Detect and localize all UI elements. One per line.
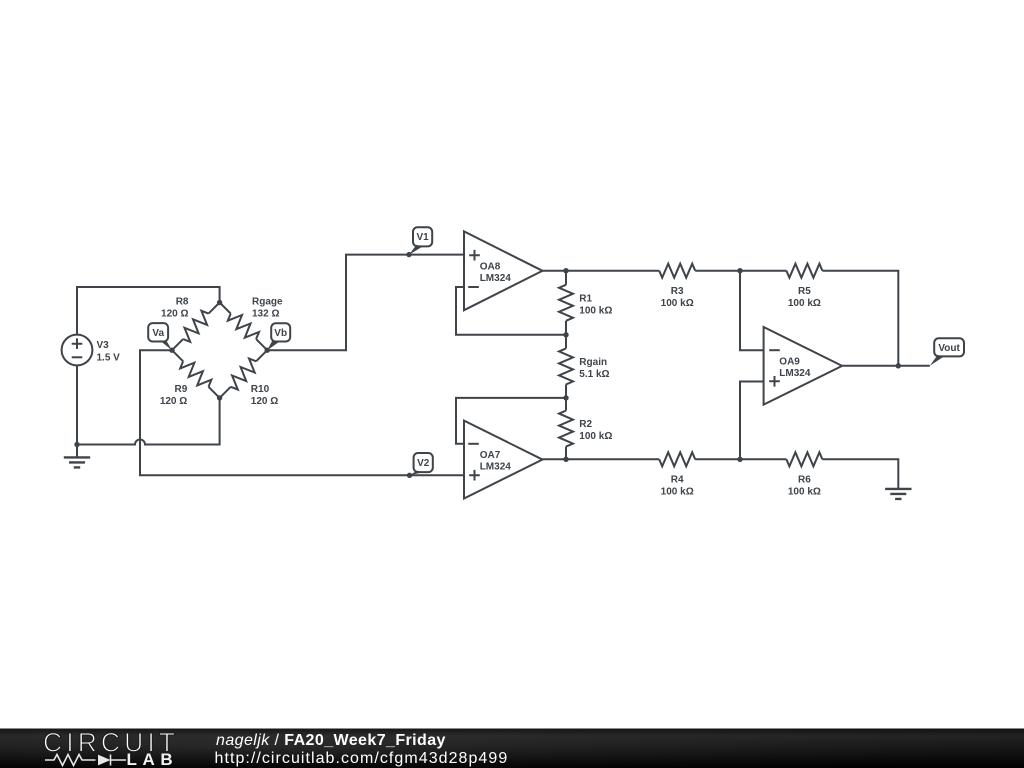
svg-text:Rgage: Rgage bbox=[252, 296, 283, 307]
svg-text:100 kΩ: 100 kΩ bbox=[661, 487, 694, 498]
svg-text:OA9: OA9 bbox=[779, 357, 800, 368]
svg-text:http://circuitlab.com/cfgm43d2: http://circuitlab.com/cfgm43d28p499 bbox=[215, 750, 509, 767]
svg-text:100 kΩ: 100 kΩ bbox=[788, 298, 821, 309]
svg-text:Va: Va bbox=[152, 328, 164, 339]
svg-text:5.1 kΩ: 5.1 kΩ bbox=[579, 369, 609, 380]
svg-text:OA8: OA8 bbox=[480, 262, 501, 273]
svg-text:132 Ω: 132 Ω bbox=[252, 308, 279, 319]
svg-text:V1: V1 bbox=[416, 232, 429, 243]
svg-text:120 Ω: 120 Ω bbox=[251, 396, 278, 407]
svg-text:V3: V3 bbox=[97, 340, 110, 351]
svg-text:120 Ω: 120 Ω bbox=[160, 396, 187, 407]
svg-text:100 kΩ: 100 kΩ bbox=[788, 487, 821, 498]
svg-text:100 kΩ: 100 kΩ bbox=[579, 305, 612, 316]
svg-text:R2: R2 bbox=[579, 419, 592, 430]
svg-text:100 kΩ: 100 kΩ bbox=[661, 298, 694, 309]
svg-text:120 Ω: 120 Ω bbox=[161, 308, 188, 319]
svg-text:R10: R10 bbox=[251, 384, 270, 395]
svg-text:1.5 V: 1.5 V bbox=[97, 352, 121, 363]
svg-text:Vb: Vb bbox=[274, 328, 287, 339]
svg-text:R9: R9 bbox=[175, 384, 188, 395]
svg-text:LM324: LM324 bbox=[480, 273, 512, 284]
svg-text:Rgain: Rgain bbox=[579, 357, 607, 368]
svg-text:LM324: LM324 bbox=[480, 462, 512, 473]
svg-text:V2: V2 bbox=[417, 458, 430, 469]
svg-text:R8: R8 bbox=[176, 296, 189, 307]
svg-text:Vout: Vout bbox=[938, 343, 960, 354]
svg-text:R3: R3 bbox=[671, 286, 684, 297]
svg-text:LM324: LM324 bbox=[779, 368, 811, 379]
svg-text:OA7: OA7 bbox=[480, 450, 501, 461]
svg-text:R1: R1 bbox=[579, 294, 592, 305]
svg-text:100 kΩ: 100 kΩ bbox=[579, 431, 612, 442]
svg-text:R5: R5 bbox=[798, 286, 811, 297]
svg-text:R4: R4 bbox=[671, 474, 684, 485]
svg-text:nageljk / FA20_Week7_Friday: nageljk / FA20_Week7_Friday bbox=[216, 732, 446, 749]
svg-text:LAB: LAB bbox=[127, 750, 179, 768]
svg-text:R6: R6 bbox=[798, 474, 811, 485]
